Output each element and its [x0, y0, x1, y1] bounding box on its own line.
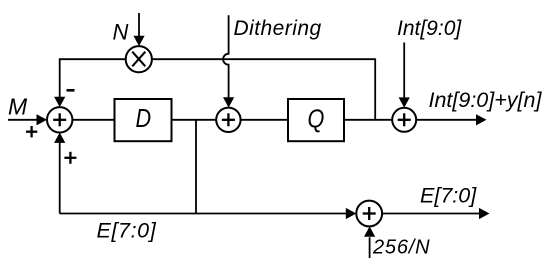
wire D output to middle adder — [172, 119, 217, 121]
svg-text:E[7:0]: E[7:0] — [97, 218, 157, 242]
block D — [115, 99, 172, 141]
wire Q output to right adder — [344, 119, 392, 121]
wire error line bottom — [60, 208, 357, 219]
svg-text:Int[9:0]+y[n]: Int[9:0]+y[n] — [429, 88, 543, 112]
svg-text:M: M — [8, 94, 28, 120]
wire 256/N input arrow — [364, 226, 375, 258]
wire U2 output to Q — [241, 119, 288, 121]
wire Int[9:0] input arrow — [399, 43, 410, 108]
summer U4 bottom adder — [356, 201, 382, 227]
svg-text:E[7:0]: E[7:0] — [420, 184, 477, 208]
plus sign (M input) — [26, 126, 37, 137]
wire U1 output to D — [72, 119, 114, 121]
wire feedback from output node up to multiplier — [152, 59, 375, 120]
wire Dithering input with hop over feedback line — [223, 15, 234, 107]
wire U4 output arrow — [382, 208, 489, 219]
plus sign (U1 bottom input) — [64, 152, 76, 164]
minus sign (U1 top input) — [67, 89, 75, 92]
wire N input arrow — [133, 13, 144, 46]
block Q — [288, 99, 344, 141]
wire junction tap down to error line — [195, 120, 197, 214]
svg-text:Dithering: Dithering — [234, 17, 322, 40]
summer U2 middle adder — [216, 108, 240, 132]
svg-text:D: D — [135, 106, 151, 134]
summer U1 left adder — [47, 107, 72, 132]
svg-text:256/N: 256/N — [372, 237, 430, 259]
multiplier X — [126, 46, 152, 72]
svg-text:N: N — [113, 20, 129, 45]
svg-text:Q: Q — [307, 106, 324, 134]
wire M input arrow — [8, 114, 47, 125]
wire U3 output arrow — [416, 114, 486, 125]
summer U3 right adder — [392, 108, 416, 132]
wire feedback from multiplier into U1 top — [54, 59, 126, 107]
wire error feedback into U1 bottom — [54, 133, 65, 214]
svg-text:Int[9:0]: Int[9:0] — [397, 17, 462, 40]
